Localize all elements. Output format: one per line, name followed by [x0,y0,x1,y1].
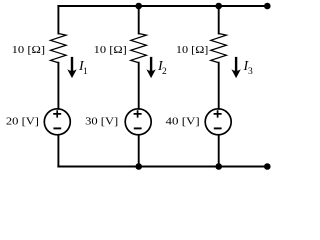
V1 plus sign [53,110,61,117]
svg-text:2: 2 [162,67,167,77]
V3 minus sign [214,127,222,129]
svg-text:10 [Ω]: 10 [Ω] [12,44,46,56]
wire branch1 bottom [57,135,59,167]
svg-text:10 [Ω]: 10 [Ω] [176,44,209,56]
junction dot top B2 [135,3,142,10]
wire branch1 top [57,6,59,34]
label current I3 [243,59,254,77]
wire branch1 mid [57,63,59,109]
wire branch2 top [138,6,140,34]
junction dot top B3 [215,3,222,10]
wire branch2 mid [138,63,140,109]
resistor R1 10[Ω] [51,34,67,63]
voltage source V1 circle [44,109,70,135]
wire bottom bus [58,166,267,168]
resistor R2 10[Ω] [131,34,147,63]
junction dot bottom B3 [215,163,222,170]
resistor R3 10[Ω] [211,34,227,63]
terminal dot top right [264,3,271,10]
current arrow I3 [231,57,240,78]
wire branch3 bottom [218,135,220,167]
current arrow I1 [67,57,76,78]
voltage source V2 circle [125,109,151,135]
label current I1 [78,59,88,77]
svg-text:30 [V]: 30 [V] [85,116,118,128]
terminal dot bottom right [264,163,271,170]
V2 minus sign [134,127,142,129]
V2 plus sign [134,110,142,117]
V1 minus sign [53,127,61,129]
svg-text:3: 3 [248,67,253,77]
wire branch3 top [218,6,220,34]
voltage source V3 circle [205,109,231,135]
label current I2 [157,59,167,77]
V3 plus sign [214,110,222,117]
current arrow I2 [146,57,155,78]
wire branch2 bottom [138,135,140,167]
svg-text:10 [Ω]: 10 [Ω] [94,44,127,56]
svg-text:1: 1 [83,67,88,77]
wire top bus [58,5,267,7]
svg-text:40 [V]: 40 [V] [166,116,200,128]
wire branch3 mid [218,63,220,109]
junction dot bottom B2 [135,163,142,170]
svg-text:20 [V]: 20 [V] [6,116,39,128]
